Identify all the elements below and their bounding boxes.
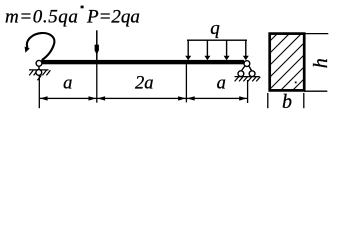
svg-text:h: h: [310, 58, 332, 68]
svg-text:b: b: [282, 91, 292, 113]
svg-text:q: q: [210, 18, 220, 39]
svg-text:m=0.5qa: m=0.5qa: [5, 7, 79, 28]
svg-text:a: a: [63, 73, 72, 93]
svg-text:P=2qa: P=2qa: [86, 7, 140, 28]
svg-text:a: a: [217, 73, 226, 93]
svg-text:2a: 2a: [135, 74, 154, 94]
